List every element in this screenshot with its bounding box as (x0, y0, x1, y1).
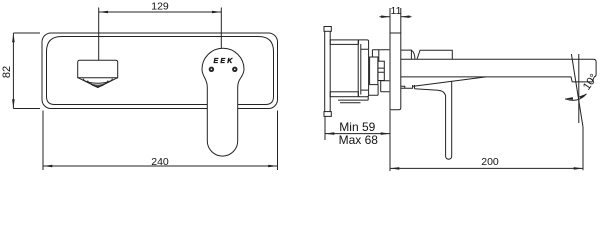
spout aerator ellipse 3 (91, 84, 104, 87)
spout cone V outline (78, 78, 118, 88)
cartridge stem lines (378, 68, 384, 72)
wall bracket top cap (324, 27, 331, 32)
svg-text:11: 11 (391, 5, 402, 17)
cartridge step 1 (370, 57, 378, 85)
cartridge lower mount lines (368, 81, 389, 96)
angle arc arrow right (579, 94, 586, 99)
handle outline (front) (202, 48, 244, 156)
dimension 200 line (390, 167, 583, 169)
svg-text:200: 200 (481, 156, 499, 168)
spout top block (417, 50, 452, 59)
lever collar (401, 86, 413, 88)
dimension 82 extension top (13, 32, 40, 34)
lever arm top edge (413, 77, 486, 87)
cartridge upper mount lines (372, 50, 389, 61)
svg-text:Min 59: Min 59 (339, 120, 375, 134)
dimension 11 extension lines (390, 8, 401, 33)
valve body (358, 40, 368, 97)
dimension 11 arrow right (401, 15, 410, 18)
bracket top rail (330, 40, 358, 45)
dimension 82 arrow top (12, 33, 15, 42)
dimension 240 extension left (42, 111, 44, 171)
handle screw right (232, 67, 237, 72)
bracket bottom rail (330, 92, 358, 97)
dimension 200 extension left (wall face) (389, 111, 391, 172)
wall bracket bottom cap (324, 112, 331, 117)
dimension 240 arrow right (268, 165, 277, 168)
dimension 240 line (43, 165, 278, 167)
clamp nut lines (338, 97, 368, 103)
spout aerator ellipse 2 (88, 81, 108, 86)
dimension 11 line right (401, 16, 412, 18)
svg-text:129: 129 (151, 1, 169, 13)
svg-text:EEK: EEK (214, 58, 235, 65)
lever notch (413, 85, 415, 89)
dimension 11 arrow left (381, 15, 390, 18)
dimension min/max arrow right (381, 132, 390, 135)
dimension min/max extension left (324, 116, 326, 140)
dimension 129 extension line right (220, 8, 222, 49)
handle screw left (209, 67, 214, 72)
dimension 82 line (12, 33, 14, 109)
dimension 240 extension right (277, 111, 279, 171)
trim plate (edge-on) (390, 33, 401, 110)
angle arc arrow left (565, 97, 573, 100)
wall bracket plate (325, 31, 331, 111)
dimension 129 extension line left (98, 8, 100, 61)
spout aerator ellipse 1 (83, 79, 112, 84)
svg-text:82: 82 (1, 66, 13, 78)
dimension 200 extension right (582, 127, 584, 170)
svg-text:10°: 10° (581, 72, 600, 93)
dimension 129 arrow left (99, 11, 108, 14)
angle arc (565, 94, 587, 101)
spout top tab (401, 50, 415, 59)
dimension 129 line (99, 11, 222, 13)
dimension 11 line left (380, 16, 391, 18)
dimension 240 arrow left (43, 165, 52, 168)
dimension min/max arrow left (325, 132, 334, 135)
svg-text:240: 240 (151, 156, 169, 168)
dimension 200 arrow right (574, 167, 583, 170)
dimension 129 arrow right (212, 11, 221, 14)
angle slanted line (571, 54, 583, 127)
svg-text:Max 68: Max 68 (339, 133, 379, 147)
spout bar outline (401, 59, 596, 82)
angle reference vertical line (578, 54, 580, 123)
dimension 82 arrow bottom (12, 99, 15, 108)
lever arm bottom and grip (415, 81, 452, 159)
wall plate inner chamfer line (47, 37, 274, 105)
spout body (front) (78, 60, 118, 77)
valve body inner lines (361, 44, 368, 95)
cartridge step 2 (378, 61, 384, 80)
wall plate outer outline (42, 33, 278, 109)
dimension min/max line (325, 133, 390, 135)
dimension 82 extension bottom (13, 108, 40, 110)
dimension 200 arrow left (390, 167, 399, 170)
